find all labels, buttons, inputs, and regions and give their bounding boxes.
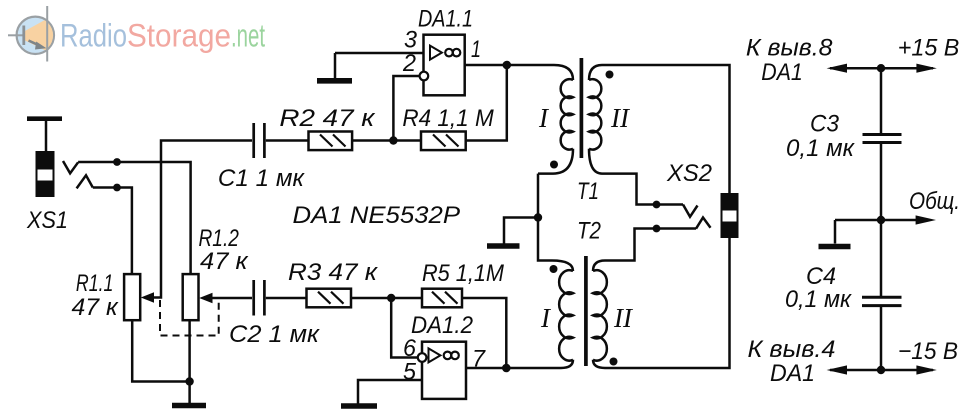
svg-text:С3: С3: [810, 111, 840, 138]
potentiometer R1.2: [183, 274, 213, 320]
label C1 1uF: [218, 165, 306, 192]
wire pin 2 to feedback node: [393, 76, 419, 141]
junction dot XS2 top contact: [653, 201, 661, 209]
junction dot -15: [877, 366, 885, 374]
svg-text:С2 1 мк: С2 1 мк: [229, 321, 321, 348]
svg-text:XS1: XS1: [26, 207, 68, 234]
junction dot output DA1.2: [502, 364, 511, 373]
junction dot XS1 top: [113, 158, 121, 166]
svg-text:Storage: Storage: [127, 18, 231, 54]
XS1 top contact: [63, 161, 78, 173]
junction dot common: [877, 216, 885, 224]
label DA1.2: [411, 312, 473, 339]
capacitor C1: [254, 123, 265, 158]
label C4 0,1uF: [785, 263, 853, 313]
junction dot XS1 bottom: [113, 184, 121, 192]
wire DA1.1 output: [465, 64, 554, 67]
wire T1 secondary top to XS2 tip: [602, 65, 730, 194]
wire junction to pin 6: [391, 298, 418, 358]
connector XS2 plug: [721, 193, 739, 238]
label XS1: [26, 207, 68, 234]
+15V rail arrow: [827, 64, 937, 73]
label DA1 NE5532P: [293, 202, 461, 229]
wire R1.2 bottom to ground: [188, 320, 191, 403]
wire R3 to R5: [351, 297, 422, 300]
op-amp DA1.1: [420, 35, 465, 96]
resistor R3: [307, 289, 352, 308]
resistor R4: [421, 132, 466, 151]
label DA1.1: [418, 6, 473, 33]
label R4 1,1M: [402, 105, 493, 132]
wire pin 5 to ground: [358, 380, 422, 404]
junction dot mid node: [534, 213, 542, 221]
junction node R3-R5-pin6: [387, 294, 395, 302]
svg-text:47 к: 47 к: [72, 294, 120, 321]
winding numeral I of T2: [540, 303, 552, 333]
resistor R2: [309, 132, 353, 151]
label R3 47k: [288, 259, 379, 286]
label R1.2 47k: [199, 225, 250, 275]
capacitor C3: [863, 135, 902, 143]
svg-text:−15 В: −15 В: [898, 338, 958, 365]
wire R2 to R4: [352, 139, 421, 142]
svg-text:R5 1,1М: R5 1,1М: [422, 260, 504, 287]
ground mid node: [487, 218, 538, 247]
junction dot XS2 bottom contact: [653, 225, 661, 233]
XS2 top contact: [683, 205, 698, 217]
label T2: [577, 218, 601, 245]
label R5 1,1M: [422, 260, 504, 287]
capacitor C2: [254, 280, 265, 316]
label Obshch: [909, 188, 960, 215]
wire T1 primary bottom to T2 primary top: [538, 174, 552, 261]
pin 3 label: [404, 27, 418, 54]
svg-text:0,1 мк: 0,1 мк: [786, 135, 856, 162]
svg-text:II: II: [610, 103, 631, 133]
wire T2 secondary top to XS2 bottom contact: [605, 229, 696, 261]
wire R1.1 wiper to C1: [151, 141, 252, 298]
wire R5 right to output node DA1.2: [462, 298, 506, 368]
wire T1 secondary bottom to XS2 top contact: [602, 174, 683, 205]
svg-text:DA1: DA1: [770, 360, 815, 387]
potentiometer R1.1: [124, 274, 154, 320]
connector XS1 plug: [27, 119, 62, 197]
wire DA1.2 output: [466, 367, 553, 370]
wire R1.2 wiper to C2: [210, 297, 252, 300]
svg-text:DA1.2: DA1.2: [411, 312, 473, 339]
wire C1 to R2: [266, 139, 309, 142]
logo transistor icon: [8, 6, 54, 62]
wire T2 secondary bottom to XS2 sleeve: [605, 237, 730, 368]
label C2 1uF: [229, 321, 321, 348]
svg-text:1: 1: [471, 36, 481, 63]
pin 6 label: [403, 335, 417, 362]
pin 1 label: [471, 36, 481, 63]
resistor R5: [422, 289, 462, 308]
svg-text:R4 1,1 М: R4 1,1 М: [402, 105, 493, 132]
transformer T2 secondary winding: [593, 261, 607, 369]
T2 core: [584, 256, 588, 366]
label R2 47k: [279, 105, 376, 132]
ground R1 bottom: [172, 403, 206, 409]
ground common rail: [819, 220, 851, 247]
wire XS1 top contact to R1.2 top: [78, 162, 191, 274]
winding numeral II of T2: [613, 303, 634, 333]
label -15 V: [898, 338, 958, 365]
label R1.1 47k: [72, 270, 120, 321]
junction node R2-R4-pin2: [389, 136, 397, 144]
svg-text:DA1.1: DA1.1: [418, 6, 473, 33]
svg-text:К выв.4: К выв.4: [748, 336, 836, 363]
wire XS1 bottom contact to R1.1 top: [93, 188, 132, 275]
capacitor C4: [862, 297, 902, 305]
svg-text:DA1: DA1: [761, 59, 803, 86]
label C3 0,1uF: [786, 111, 856, 163]
svg-text:Общ.: Общ.: [909, 188, 960, 215]
svg-text:5: 5: [403, 359, 417, 386]
winding numeral I of T1: [538, 103, 550, 133]
wire pin 3: [335, 52, 424, 55]
svg-text:R1.1: R1.1: [76, 270, 114, 297]
junction dot +15: [877, 64, 885, 72]
wire C2 to R3: [266, 297, 307, 300]
junction dot R1 bottom: [185, 377, 193, 385]
phase dot T2 primary: [550, 265, 558, 273]
wire C4 to -15 rail: [880, 307, 883, 370]
svg-text:Radio: Radio: [60, 18, 127, 54]
label K vyv.8 DA1: [746, 35, 833, 87]
label T1: [577, 178, 599, 205]
svg-text:II: II: [613, 303, 634, 333]
common rail arrow: [835, 215, 936, 224]
logo text RadioStorage.net: [60, 18, 265, 54]
pin 7 label: [472, 346, 487, 373]
ground at pin 5: [341, 403, 377, 409]
wire R4 right to output node: [466, 65, 507, 141]
svg-text:R3 47 к: R3 47 к: [288, 259, 379, 286]
dashed gang coupling R1.1-R1.2: [160, 300, 219, 336]
wire C3 to common node: [880, 144, 883, 296]
op-amp DA1.2: [418, 342, 466, 399]
junction dot output DA1.1: [503, 61, 512, 70]
svg-text:T1: T1: [577, 178, 599, 205]
svg-text:DA1 NE5532P: DA1 NE5532P: [293, 202, 461, 229]
wire R1.1 bottom to junction: [132, 320, 189, 381]
label +15 V: [898, 35, 960, 62]
svg-text:.net: .net: [231, 18, 265, 54]
phase dot T1 primary: [550, 161, 558, 169]
winding numeral II of T1: [610, 103, 631, 133]
label XS2: [666, 160, 712, 187]
XS1 bottom contact: [77, 175, 93, 188]
phase dot T2 secondary: [610, 358, 618, 366]
svg-text:0,1 мк: 0,1 мк: [785, 286, 853, 313]
svg-text:С1 1 мк: С1 1 мк: [218, 165, 306, 192]
svg-text:T2: T2: [577, 218, 601, 245]
pin 2 label: [402, 50, 416, 77]
svg-text:R2 47 к: R2 47 к: [279, 105, 376, 132]
transformer T1 secondary winding: [589, 65, 602, 174]
XS2 bottom contact: [696, 218, 711, 229]
svg-text:К выв.8: К выв.8: [746, 35, 833, 62]
-15V rail arrow: [827, 365, 937, 374]
wire +15 rail to C3: [880, 68, 883, 133]
transformer T2 primary winding: [552, 261, 573, 369]
ground at pin 3: [317, 53, 352, 81]
svg-text:XS2: XS2: [666, 160, 712, 187]
label K vyv.4 DA1: [748, 336, 836, 387]
phase dot T1 secondary: [606, 71, 614, 79]
T1 core: [580, 58, 584, 158]
svg-text:47 к: 47 к: [200, 248, 249, 275]
svg-text:+15 В: +15 В: [898, 35, 960, 62]
pin 5 label: [403, 359, 417, 386]
transformer T1 primary winding: [538, 65, 573, 174]
